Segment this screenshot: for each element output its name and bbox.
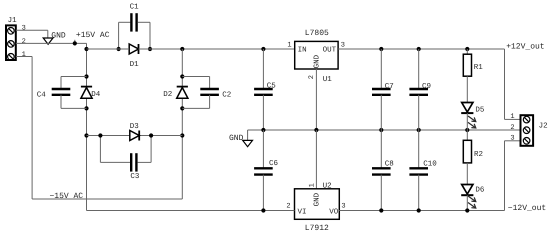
svg-text:2: 2 [510,124,514,132]
ground stub at C5 [247,130,249,140]
svg-text:2: 2 [22,38,26,46]
capacitor C4 [52,77,87,109]
junction C10 bottom [417,208,421,212]
junction C1 right [148,47,152,51]
svg-text:−12V_out: −12V_out [508,204,546,213]
wire +12V rail drop to J2 pin1 [504,49,506,119]
wire J1 pin2 to +15V AC node [16,42,87,44]
junction C8 bottom [379,208,383,212]
wire left bridge column [86,43,88,210]
svg-text:GND: GND [313,54,322,68]
capacitor C6 [262,130,264,168]
svg-text:3: 3 [341,202,345,210]
junction D5 R2 mid [465,128,469,132]
junction C6 bottom [261,208,265,212]
op-amp U1 regulator L7805 box [295,41,338,69]
ground symbol mid [243,140,253,146]
junction D6 bottom [465,208,469,212]
wire J1 pin1 down [16,56,32,58]
wire top rail left segment [87,48,130,50]
connector J2 [521,115,534,146]
wire +12V rail [338,48,504,50]
svg-text:VI: VI [298,209,307,217]
svg-text:D3: D3 [130,122,140,131]
svg-text:L7912: L7912 [305,224,329,233]
junction U1 U2 gnd mid [314,128,318,132]
svg-text:2: 2 [308,75,316,79]
svg-text:R1: R1 [474,64,484,72]
svg-text:OUT: OUT [323,45,337,54]
wire -12V rail rise to J2 pin3 [504,141,506,211]
junction C5 top [261,47,265,51]
capacitor C3 [100,136,151,172]
LED D5 arrows [468,116,476,122]
svg-text:GND: GND [229,134,244,143]
wire U2 GND pin up [315,130,317,189]
capacitor C1 [119,13,150,49]
net tick +15V AC [74,40,76,44]
svg-text:+12V_out: +12V_out [506,42,544,51]
svg-text:C8: C8 [385,160,394,169]
svg-text:+15V AC: +15V AC [76,31,110,40]
LED D6 [461,185,473,211]
svg-text:VO: VO [329,208,339,217]
junction C2 top [180,74,184,78]
svg-text:D6: D6 [475,185,485,194]
wire bottom rail right [339,210,504,212]
svg-text:C9: C9 [422,82,431,91]
junction C3 left [98,133,102,137]
diode D3 [130,131,139,141]
svg-text:D2: D2 [163,90,172,99]
capacitor C7 [380,49,382,89]
node +15V AC junction [73,41,77,45]
wire GND rail [248,129,521,131]
svg-text:1: 1 [510,113,514,121]
svg-text:GND: GND [51,32,66,41]
wire U1 GND pin down [315,69,317,130]
connector J1 [6,25,16,60]
junction C7 top [379,47,383,51]
junction right column top [180,47,184,51]
svg-text:C5: C5 [267,81,277,90]
junction C2 bottom [180,106,184,110]
junction D3 line right [180,133,184,137]
resistor R2 [463,130,471,185]
svg-text:3: 3 [510,134,514,142]
svg-text:D5: D5 [475,106,485,114]
svg-text:3: 3 [22,25,26,33]
capacitor C9 [418,49,420,89]
diode D1 [129,44,138,54]
junction left column top rail [84,47,88,51]
svg-text:C4: C4 [37,90,47,99]
svg-text:R2: R2 [474,150,483,159]
junction C9 C10 mid [417,128,421,132]
svg-text:D4: D4 [91,91,101,99]
LED D5 [461,103,473,131]
svg-text:−15V AC: −15V AC [50,192,84,201]
svg-text:C1: C1 [130,3,140,12]
svg-text:1: 1 [22,51,26,59]
capacitor C8 [380,130,382,168]
svg-text:C6: C6 [269,159,279,168]
wire J1 pin3 to ground [16,29,48,31]
wire bottom rail left [87,210,295,212]
wire D3 line [87,135,130,137]
svg-text:IN: IN [298,46,307,54]
svg-text:L7805: L7805 [305,29,329,38]
svg-text:U2: U2 [323,181,332,190]
ground symbol at J1 [43,38,53,44]
svg-text:J2: J2 [539,121,548,130]
capacitor C5 [262,49,264,89]
svg-text:C10: C10 [423,160,437,169]
svg-text:GND: GND [312,192,321,206]
junction C9 top [417,47,421,51]
junction C3 right [149,133,153,137]
svg-text:C2: C2 [222,90,231,99]
svg-text:U1: U1 [323,76,333,84]
junction D3 line left [84,133,88,137]
op-amp U2 regulator L7912 box [295,189,340,220]
svg-text:C7: C7 [385,82,394,91]
wire -15V AC line [32,198,182,200]
junction C5 C6 mid [261,128,265,132]
svg-text:J1: J1 [8,17,18,25]
junction C7 C8 mid [379,128,383,132]
junction C1 left [117,47,121,51]
junction C4 bottom [84,106,88,110]
svg-text:D1: D1 [130,61,140,69]
resistor R1 [463,49,471,103]
wire top rail D1 to regulator [139,48,295,50]
diode D4 [81,86,92,88]
svg-text:1: 1 [287,42,291,50]
capacitor C2 [182,77,219,109]
diode D2 [177,86,188,88]
junction C4 top [84,74,88,78]
junction R1 top [465,47,469,51]
capacitor C10 [418,130,420,168]
wire right bridge column [181,49,183,199]
svg-text:2: 2 [286,202,290,210]
LED D6 arrows [468,196,476,202]
svg-text:C3: C3 [130,172,140,181]
svg-text:1: 1 [308,183,316,187]
svg-text:3: 3 [341,42,345,50]
